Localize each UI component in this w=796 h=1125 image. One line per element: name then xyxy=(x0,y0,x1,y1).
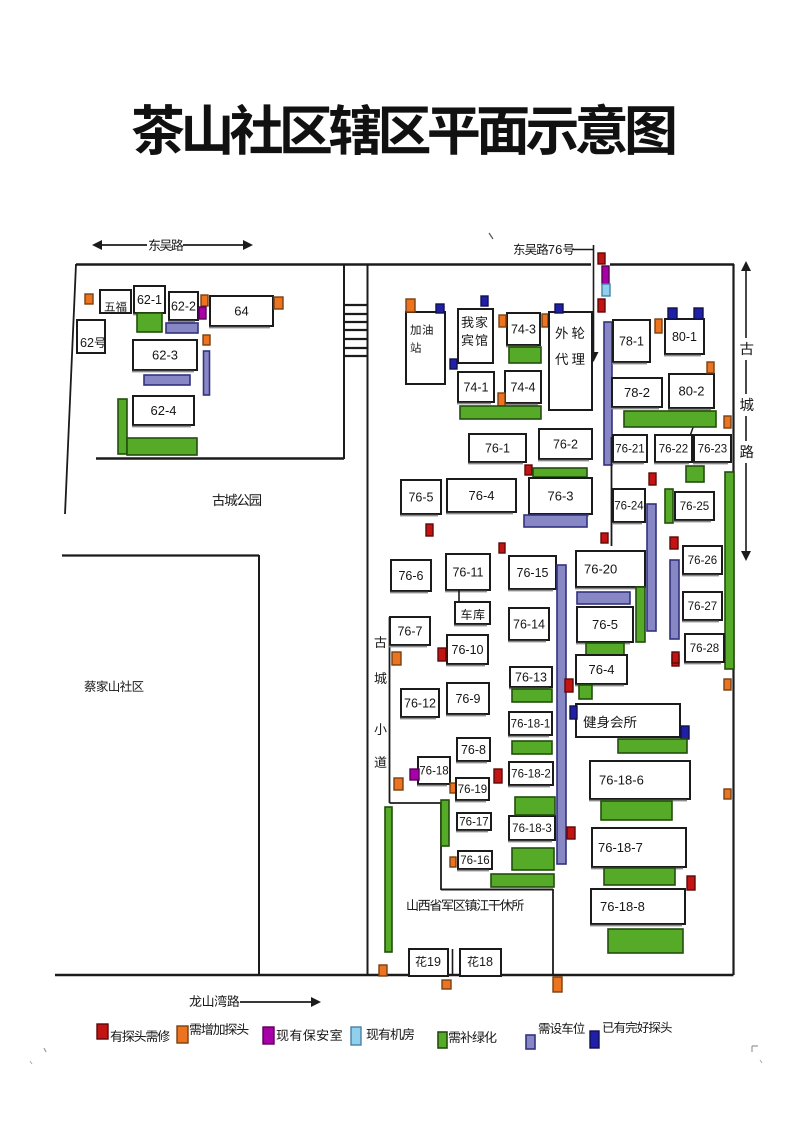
camera-add marker right of 76-18 xyxy=(450,783,456,793)
building 76-18-1 xyxy=(508,712,552,737)
svg-text:18: 18 xyxy=(479,955,493,969)
svg-text:76-1: 76-1 xyxy=(485,442,510,456)
camera-add marker left of 76-16 xyxy=(450,857,456,867)
repair-camera marker left of 76-11 xyxy=(499,543,505,553)
building 健身会所 xyxy=(576,704,680,737)
building 76-26 xyxy=(682,546,722,576)
svg-text:80-1: 80-1 xyxy=(672,330,697,344)
svg-text:76-6: 76-6 xyxy=(398,569,423,583)
svg-text:76-18-6: 76-18-6 xyxy=(599,773,644,788)
building 76-18-7 xyxy=(591,828,686,869)
page mark top-left-legend xyxy=(30,1061,32,1064)
svg-text:76-9: 76-9 xyxy=(455,692,480,706)
greenery vertical at 干休所 corner xyxy=(441,800,449,846)
干休所 inner vertical xyxy=(440,803,442,890)
svg-text:76-20: 76-20 xyxy=(584,562,617,577)
label 蔡家山社区 xyxy=(84,680,143,692)
svg-text:76-28: 76-28 xyxy=(690,643,719,655)
repair-camera marker above 76-26 xyxy=(670,537,678,549)
svg-text:74-1: 74-1 xyxy=(463,381,488,395)
building 花18 xyxy=(460,949,501,976)
svg-text:76-18: 76-18 xyxy=(419,766,448,778)
greenery strip below 76-16 xyxy=(491,874,554,887)
good-camera marker left of 74-1 xyxy=(450,359,457,369)
building 76-18-8 xyxy=(590,889,685,926)
connector line below 76-21 xyxy=(611,437,613,546)
greenery under 74-1 74-4 xyxy=(460,406,541,419)
building 加油站 xyxy=(406,312,445,384)
干休所 top line xyxy=(441,889,553,891)
svg-text:62: 62 xyxy=(80,336,94,350)
parking bar in lane xyxy=(604,322,612,465)
building 76-9 xyxy=(446,683,489,716)
svg-text:76: 76 xyxy=(548,242,563,257)
page mark bottom-left xyxy=(44,1048,46,1052)
building 76-4 xyxy=(446,479,516,514)
repair-camera marker below 76-21 xyxy=(649,473,656,485)
crosswalk rungs on 古城小道 xyxy=(345,305,367,356)
repair-camera marker below 76-5 xyxy=(426,524,433,536)
camera-add marker below 76-7 xyxy=(392,652,401,665)
page mark bottom-right xyxy=(752,1046,758,1052)
building 76-21 xyxy=(612,435,647,464)
diagonal tick near 76-22 xyxy=(690,422,695,436)
building 76-25 xyxy=(674,492,714,522)
building 76-1 xyxy=(468,434,526,464)
svg-text:76-21: 76-21 xyxy=(615,444,644,456)
bottom line of 62 block xyxy=(96,457,344,459)
svg-text:76-18-2: 76-18-2 xyxy=(511,769,551,781)
camera-add marker east edge lower xyxy=(724,789,731,799)
svg-text:76-27: 76-27 xyxy=(688,601,717,613)
machine room marker at lane xyxy=(602,284,610,296)
greenery right of 76-5 south xyxy=(636,587,645,642)
greenery under 76-18-1 xyxy=(512,741,552,754)
building 76-20 xyxy=(575,551,645,589)
road label 龙山湾路 with arrow xyxy=(189,995,321,1007)
svg-text:62-3: 62-3 xyxy=(152,348,178,363)
building 76-24 xyxy=(612,489,645,524)
building 62-4 xyxy=(132,396,194,427)
svg-text:76-18-3: 76-18-3 xyxy=(512,823,552,835)
good-camera marker above 80-1 left xyxy=(668,308,677,319)
building 76-14 xyxy=(508,608,549,642)
label 山西省军区镇江干休所 xyxy=(407,899,523,911)
camera-add marker above 80-2 xyxy=(707,362,714,373)
svg-text:76-13: 76-13 xyxy=(515,671,547,685)
干休所 west boundary xyxy=(389,617,391,803)
security room marker left of 76-18 xyxy=(410,769,419,780)
greenery below 76-22 xyxy=(686,466,704,482)
svg-text:62-1: 62-1 xyxy=(137,293,162,307)
building 76-15 xyxy=(508,556,556,591)
legend 已有完好探头 xyxy=(590,1021,672,1048)
parking bar right of 76-24 xyxy=(647,504,656,631)
camera-add marker right of 78-1 xyxy=(655,319,662,333)
greenery tall east xyxy=(725,472,734,669)
building 62-1 xyxy=(133,286,165,315)
repair-camera marker left of 76-18-7 xyxy=(567,827,575,839)
parking bar under 76-3 xyxy=(524,515,587,527)
building 76-27 xyxy=(682,592,722,622)
greenery left of 76-25 xyxy=(665,489,673,523)
page mark top-right-legend xyxy=(760,1060,762,1063)
greenery under 76-5 south xyxy=(586,643,624,655)
building 64 xyxy=(209,296,273,328)
parking bar under 62-3 xyxy=(144,375,190,385)
road 古城路 vertical label with arrow xyxy=(740,261,754,561)
svg-text:76-14: 76-14 xyxy=(513,618,545,632)
repair-camera marker right of 76-19 xyxy=(494,769,502,783)
legend 有探头需修 xyxy=(97,1024,170,1042)
camera-add marker above 加油站 xyxy=(406,299,415,312)
svg-text:76-15: 76-15 xyxy=(517,566,549,580)
top boundary line (right segment) xyxy=(610,263,734,265)
svg-text:19: 19 xyxy=(427,955,441,969)
building 76-13 xyxy=(509,667,552,689)
svg-text:80-2: 80-2 xyxy=(678,384,704,399)
svg-text:76-19: 76-19 xyxy=(458,784,487,796)
greenery tall west of 干休所 xyxy=(385,807,392,952)
蔡家山 block top line xyxy=(62,554,259,556)
svg-text:76-11: 76-11 xyxy=(452,566,483,580)
good-camera marker above 我家宾馆 xyxy=(481,296,488,306)
building 76-18 xyxy=(417,757,450,786)
building 76-18-3 xyxy=(508,816,555,842)
svg-text:76-4: 76-4 xyxy=(468,488,494,503)
greenery bottom of 62 block xyxy=(127,438,197,455)
repair-camera marker left of 76-10 xyxy=(438,648,446,661)
svg-text:76-8: 76-8 xyxy=(461,743,486,757)
greenery above 76-18-3 xyxy=(515,797,555,815)
camera-add marker below 74-1 74-4 xyxy=(498,393,505,406)
camera-add marker right of 64 xyxy=(274,297,283,309)
camera-add marker below 花19 xyxy=(442,980,451,989)
svg-text:76-10: 76-10 xyxy=(452,643,484,657)
greenery under 78-2 80-2 xyxy=(624,411,716,427)
bottom boundary line xyxy=(55,974,734,976)
greenery under 健身会所 xyxy=(618,739,687,753)
greenery vertical left of 62-4 xyxy=(118,399,127,454)
svg-text:76-16: 76-16 xyxy=(460,855,489,867)
svg-text:76-2: 76-2 xyxy=(553,438,578,452)
road label 东吴路 with double arrow xyxy=(92,239,253,251)
greenery under 74-3 xyxy=(509,347,541,363)
greenery under 62-1 xyxy=(137,313,162,332)
repair-camera marker right of greenery xyxy=(687,876,695,890)
building 62-3 xyxy=(132,340,197,372)
干休所 east vertical xyxy=(552,889,554,975)
svg-text:64: 64 xyxy=(234,304,248,319)
svg-text:62-4: 62-4 xyxy=(150,403,176,418)
repair-camera marker at lane lower xyxy=(598,299,605,312)
building 76-4 south xyxy=(575,655,627,686)
building 74-4 xyxy=(504,371,541,405)
greenery under 76-18-6 xyxy=(601,801,672,820)
left boundary slanted line xyxy=(65,264,76,514)
building 76-6 xyxy=(390,560,431,593)
building 我家宾馆 xyxy=(458,309,493,363)
label 古城公园 xyxy=(213,494,261,506)
building 76-18-6 xyxy=(589,761,690,801)
svg-text:78-2: 78-2 xyxy=(624,385,650,400)
svg-text:76-4: 76-4 xyxy=(588,662,614,677)
svg-text:76-3: 76-3 xyxy=(547,489,573,504)
building 78-1 xyxy=(612,320,650,364)
building 花19 xyxy=(409,949,448,976)
greenery under 76-18-7 xyxy=(604,868,675,885)
building 76-8 xyxy=(456,738,490,763)
svg-text:76-5: 76-5 xyxy=(592,617,618,632)
building 76-23 xyxy=(693,435,731,464)
good-camera marker right of 健身会所 xyxy=(681,726,689,739)
svg-text:76-25: 76-25 xyxy=(680,501,709,513)
connector line 76-11 to 车库 xyxy=(458,590,460,603)
building 五福 xyxy=(100,290,131,313)
greenery under 76-18-3 xyxy=(512,848,554,870)
legend 需增加探头 xyxy=(177,1023,248,1043)
good-camera marker left of 健身会所 xyxy=(570,706,577,719)
divider line between 花19 花18 xyxy=(452,949,454,975)
repair-camera marker right of 76-4 south xyxy=(672,652,679,663)
building 76-5 south xyxy=(576,607,633,644)
蔡家山 block east line xyxy=(258,555,260,975)
svg-text:74-4: 74-4 xyxy=(510,381,535,395)
building 76-28 xyxy=(684,634,724,664)
svg-text:74-3: 74-3 xyxy=(511,323,536,337)
building 车库 xyxy=(454,602,490,626)
building 62号 xyxy=(77,320,105,353)
building 76-19 xyxy=(455,778,489,802)
good-camera marker above 外轮代理 xyxy=(555,304,563,313)
security room marker near 62-2 xyxy=(199,307,206,319)
road 古城小道 west edge xyxy=(343,264,345,459)
building 76-22 xyxy=(654,435,692,464)
svg-text:76-7: 76-7 xyxy=(397,625,422,639)
parking bar under 76-20 xyxy=(577,592,630,604)
repair-camera marker left of 76-4 south xyxy=(565,679,573,692)
good-camera marker at 加油站 NE xyxy=(436,304,444,313)
repair-camera marker below 76-28 xyxy=(672,655,679,666)
road 古城小道 vertical label xyxy=(374,636,386,768)
security room marker at lane xyxy=(602,266,609,284)
svg-text:76-24: 76-24 xyxy=(614,501,644,513)
building 80-2 xyxy=(668,374,714,410)
building 80-1 xyxy=(664,319,704,356)
building 78-2 xyxy=(611,378,662,409)
top boundary line (left segment) xyxy=(76,263,591,265)
camera-add marker left of 五福 xyxy=(85,294,93,304)
camera-add marker right of 62-2 xyxy=(201,295,208,306)
repair-camera marker below 76-1 xyxy=(525,465,532,475)
camera-add marker at 蔡家山 SE xyxy=(379,965,387,976)
building 76-11 xyxy=(445,554,490,592)
good-camera marker above 80-1 right xyxy=(694,308,703,319)
parking bar right of 62-3 xyxy=(204,351,210,395)
camera-add marker right of 74-3 xyxy=(542,314,548,327)
svg-text:76-18-8: 76-18-8 xyxy=(600,899,645,914)
east boundary 古城路 edge xyxy=(732,264,734,975)
building 76-2 xyxy=(538,429,592,461)
camera-add marker at 干休所 SE corner xyxy=(553,977,562,992)
central parking bar xyxy=(557,565,566,864)
building 62-2 xyxy=(168,292,198,322)
repair-camera marker above 76-20 xyxy=(601,533,608,543)
parking bar under 62-2 xyxy=(166,323,198,333)
building 76-12 xyxy=(400,689,439,719)
building 外轮代理 xyxy=(549,312,592,410)
svg-text:76-18-7: 76-18-7 xyxy=(598,840,643,855)
svg-text:76-12: 76-12 xyxy=(404,697,436,711)
svg-text:62-2: 62-2 xyxy=(171,300,196,314)
svg-text:76-18-1: 76-18-1 xyxy=(511,719,551,731)
camera-add marker below 62-2 xyxy=(203,335,210,345)
tick mark near lane xyxy=(489,233,493,239)
svg-text:76-22: 76-22 xyxy=(659,444,688,456)
legend 现有保安室 xyxy=(263,1027,342,1044)
road 古城小道 east edge xyxy=(367,264,369,975)
camera-add marker left of 74-3 xyxy=(499,315,506,327)
legend 需设车位 xyxy=(526,1022,585,1049)
greenery under 76-13 xyxy=(512,689,552,702)
building 76-5 xyxy=(400,480,441,516)
legend 现有机房 xyxy=(351,1027,414,1045)
greenery above 76-3 xyxy=(533,468,587,477)
building 76-3 xyxy=(528,478,592,516)
svg-text:76-17: 76-17 xyxy=(459,817,488,829)
svg-text:78-1: 78-1 xyxy=(619,335,644,349)
camera-add marker east edge upper xyxy=(724,679,731,690)
lane label 东吴路76号 with arrow xyxy=(514,242,599,362)
building 76-18-2 xyxy=(508,762,553,787)
building 76-7 xyxy=(389,617,430,647)
svg-text:76-26: 76-26 xyxy=(688,555,717,567)
legend 需补绿化 xyxy=(438,1031,497,1048)
title 茶山社区辖区平面示意图 xyxy=(132,103,674,155)
svg-text:76-5: 76-5 xyxy=(408,491,433,505)
greenery under 76-18-8 xyxy=(608,929,683,953)
greenery under 76-4 south xyxy=(579,685,592,699)
svg-text:76-23: 76-23 xyxy=(698,444,727,456)
building 76-16 xyxy=(457,851,492,871)
干休所 step line xyxy=(390,802,442,804)
building 76-10 xyxy=(446,635,488,666)
building 76-17 xyxy=(456,813,491,832)
parking bar left of 76-26 xyxy=(670,560,679,639)
repair-camera marker at lane top xyxy=(598,253,605,264)
camera-add marker right of greenery xyxy=(724,416,731,428)
building 74-3 xyxy=(506,313,540,347)
camera-add marker below 76-7 area xyxy=(394,778,403,790)
building 74-1 xyxy=(457,372,494,404)
